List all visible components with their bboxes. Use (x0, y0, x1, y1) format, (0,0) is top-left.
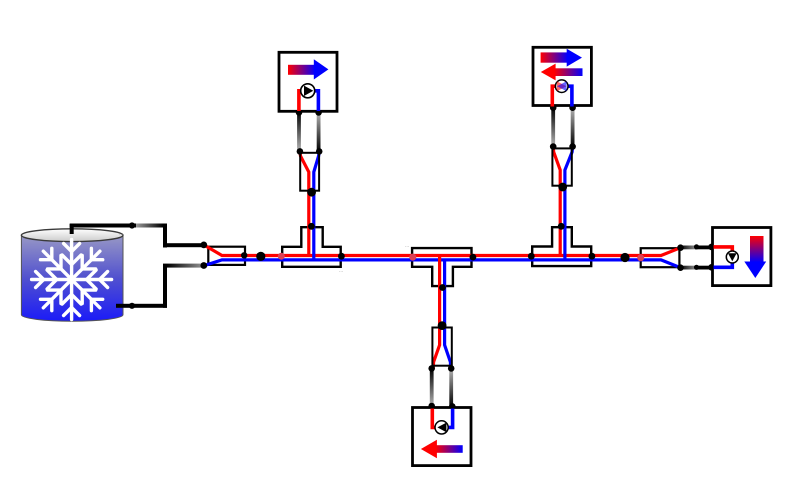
pipe blue B1 (313, 91, 318, 111)
node big V1 (307, 188, 316, 197)
pump P3 (726, 251, 738, 263)
return drop blue J2 to coupler V3 (445, 260, 451, 368)
wire run A left (297, 112, 301, 152)
arrow B4 head (421, 440, 437, 459)
pipe red B1 (299, 91, 304, 111)
wire run C left (430, 368, 434, 406)
pipe red B2 (552, 86, 557, 106)
arrow B2 left head (541, 64, 556, 81)
wire run D top gradient (681, 246, 698, 250)
coupler V1 vertical rectangle (300, 153, 319, 191)
wire run A right (317, 112, 321, 152)
node coupler CPL2 inlet (red) (637, 254, 644, 261)
load box B4 bottom (413, 408, 472, 466)
pipe blue B2 (567, 86, 572, 106)
junction tee J3 right (532, 227, 591, 266)
snowflake icon on tank (32, 240, 112, 320)
node J3 top port (558, 223, 565, 230)
node big bus right (620, 253, 629, 262)
svg-text:...: ... (119, 231, 123, 237)
label speck near J2 (405, 243, 409, 249)
return pipe blue bus (205, 260, 681, 268)
pipe blue B3 (714, 262, 733, 267)
load box B2 top-right (533, 47, 591, 105)
pipe blue B4 (447, 409, 453, 428)
supply riser red J1 to coupler V1 (300, 152, 309, 257)
pipe red B4 (432, 409, 437, 428)
pump P2 reversible (555, 80, 568, 93)
junction tee J1 left (282, 227, 341, 267)
arrow B2 left shaft (554, 68, 582, 76)
node J2 left port (red) (409, 254, 416, 261)
node J1 top port (308, 223, 315, 230)
arrow B1 head (314, 59, 329, 79)
node run A (296, 109, 323, 155)
wire to coupler bottom gradient (167, 264, 205, 268)
return riser blue J1 to coupler V1 (314, 152, 319, 261)
wire run B left (551, 108, 555, 147)
supply drop red J2 to coupler V3 (433, 256, 439, 369)
pipe red B3 (714, 247, 733, 252)
ice storage tank TAN body (21, 235, 123, 321)
load box B1 top-left (279, 52, 337, 111)
arrow B3 head (744, 262, 766, 279)
wire run D bottom solid (695, 266, 712, 270)
coupler V2 vertical rectangle (552, 148, 571, 185)
node coupler CPL1 outlet (241, 252, 247, 258)
pump P4 (435, 421, 448, 434)
wire run D bottom gradient (681, 266, 698, 270)
wire tank bottom horizontal (116, 304, 167, 308)
wire tank top horizontal (70, 224, 136, 228)
node J2 bottom port (439, 284, 446, 291)
wire run B right (571, 108, 575, 147)
wire tank top stub (70, 224, 74, 234)
junction tee J2 center (412, 248, 471, 286)
supply pipe red bus (205, 245, 681, 255)
arrow B2 right head (567, 49, 582, 67)
wire tank top corner vertical (163, 224, 167, 248)
load box B3 right (713, 228, 771, 286)
ice storage tank TAN lid (21, 229, 123, 242)
node tank-coupler top (200, 242, 207, 249)
node J3 left port (528, 253, 535, 260)
arrow B1 shaft (288, 65, 316, 75)
supply riser red J3 to coupler V2 (553, 147, 560, 256)
arrow B4 shaft (436, 445, 463, 453)
arrow B3 shaft (750, 236, 764, 263)
wire to coupler top (163, 243, 205, 247)
label speck near J1 (339, 268, 343, 274)
coupler CPL1 left rectangle (208, 247, 245, 265)
node J3 right port (589, 253, 596, 260)
svg-text:...: ... (405, 243, 409, 249)
svg-text:...: ... (339, 268, 343, 274)
node tank-coupler bottom (200, 262, 207, 269)
node big bus left (256, 252, 265, 261)
node J1 left port (red) (278, 253, 285, 260)
pump P1 (301, 84, 315, 98)
wire tank top gradient segment (136, 224, 163, 228)
node J1 right port (338, 253, 345, 260)
wire tank bottom corner vertical (163, 264, 167, 308)
node run C (428, 365, 455, 410)
coupler V3 vertical rectangle (432, 328, 451, 366)
arrow B2 right shaft (541, 52, 568, 62)
label speck near tank wire (119, 231, 123, 237)
wire run D top solid (695, 246, 712, 250)
node big V3 (438, 321, 447, 330)
coupler CPL2 right rectangle (641, 248, 680, 267)
node run D (677, 244, 715, 271)
node run B (550, 104, 576, 150)
node on tank top wire (129, 222, 135, 228)
wire run C right (449, 368, 453, 406)
return riser blue J3 to coupler V2 (565, 147, 573, 260)
node J2 right port (470, 254, 477, 261)
node on tank bottom wire (129, 303, 135, 309)
node big V2 (558, 183, 567, 192)
